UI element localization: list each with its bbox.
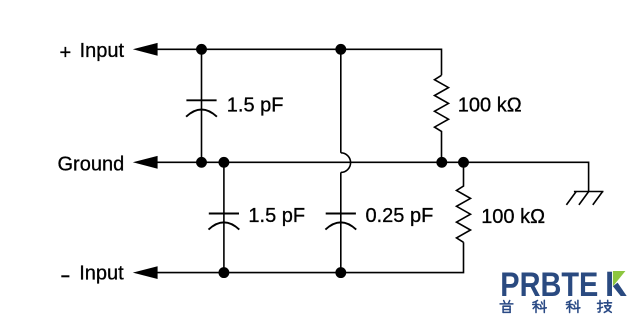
- svg-text:1.5 pF: 1.5 pF: [248, 205, 305, 227]
- svg-text:1.5 pF: 1.5 pF: [227, 95, 284, 117]
- svg-text:Input: Input: [79, 263, 124, 285]
- svg-text:Input: Input: [80, 40, 125, 62]
- svg-text:+: +: [60, 42, 72, 64]
- svg-text:100 kΩ: 100 kΩ: [458, 95, 522, 117]
- svg-text:100 kΩ: 100 kΩ: [481, 206, 545, 228]
- svg-text:0.25 pF: 0.25 pF: [366, 205, 434, 227]
- svg-text:Ground: Ground: [58, 154, 125, 176]
- svg-text:PRBTE: PRBTE: [500, 266, 598, 304]
